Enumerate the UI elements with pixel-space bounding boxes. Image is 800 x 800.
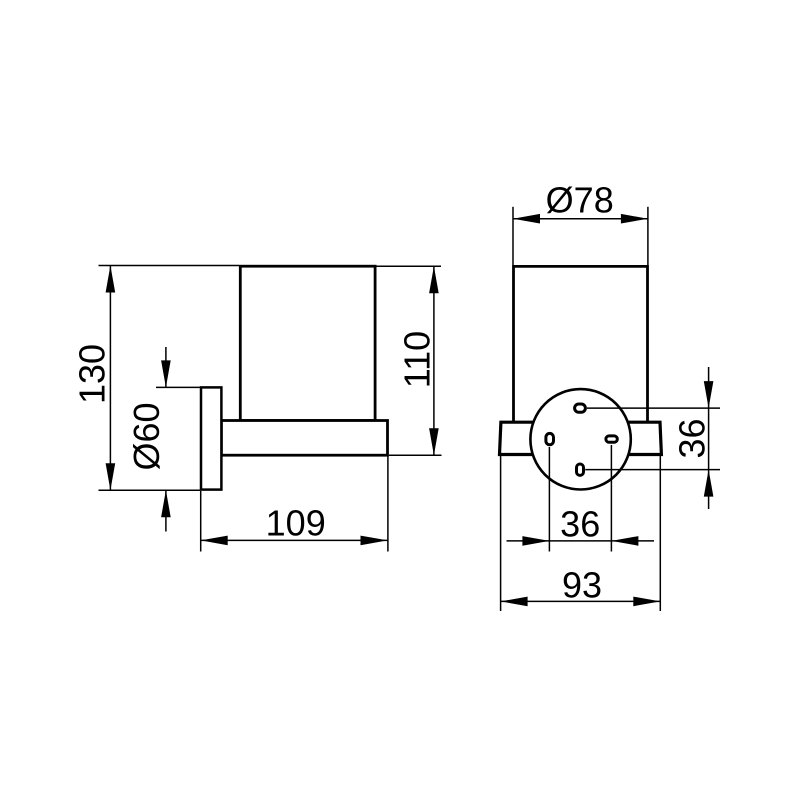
svg-text:93: 93 <box>562 565 602 606</box>
dimension 93 arrow right <box>633 597 660 607</box>
holder arm / ring (side view) <box>221 421 387 456</box>
dimension 36 right line <box>708 367 710 509</box>
screw slot top <box>575 404 586 412</box>
dimension 36 right arrow up <box>704 470 714 497</box>
dimension Ø60 upper tail <box>165 347 167 387</box>
dimension 109 arrow left <box>201 536 228 546</box>
dimension 36 bottom extension line left (from left slot) <box>548 447 550 552</box>
dimension Ø60 arrow up <box>161 490 171 517</box>
dimension Ø78 extension line left <box>512 207 514 265</box>
glass tumbler (front view) <box>514 266 648 422</box>
dimension 36 bottom arrow left-pointing <box>611 536 638 546</box>
dimension Ø60 extension line top <box>156 386 200 388</box>
holder ring (front view) <box>500 422 662 454</box>
dimension 36 bottom extension line right (from right slot) <box>610 445 612 552</box>
screw slot right <box>606 436 617 442</box>
svg-text:36: 36 <box>560 504 600 545</box>
dimension 130 arrow down <box>106 463 116 490</box>
dimension 93 line <box>501 600 661 602</box>
dimension 110 line <box>433 266 435 455</box>
dimension 110 arrow up <box>429 266 439 293</box>
wall plate rosette (front view) <box>530 389 630 489</box>
dimension 109 line <box>201 539 388 541</box>
dimension 130 line <box>109 266 111 491</box>
svg-text:110: 110 <box>397 331 438 388</box>
dimension Ø78 line <box>513 218 648 220</box>
glass tumbler (side view) <box>240 266 375 420</box>
dimension Ø78 arrow left <box>513 214 540 224</box>
svg-text:109: 109 <box>266 502 326 543</box>
dimension Ø60 arrow down <box>161 360 171 387</box>
svg-text:Ø78: Ø78 <box>546 180 614 221</box>
dimension Ø60 lower tail <box>165 490 167 531</box>
dimension Ø78 extension line right <box>647 207 649 265</box>
dimension 109 extension line right <box>387 457 389 552</box>
dimension 36 right arrow down <box>704 381 714 408</box>
dimension 36 bottom arrow right-pointing <box>522 536 549 546</box>
dimension Ø78 arrow right <box>621 214 648 224</box>
svg-text:130: 130 <box>72 344 113 404</box>
dimension 93 extension line right <box>659 456 661 611</box>
wall plate rosette (side view) <box>201 387 221 489</box>
dimension 36 bottom line <box>507 540 655 542</box>
dimension 109 extension line left <box>200 491 202 552</box>
dimension 36 right leader top (from top slot) <box>587 407 720 409</box>
dimension 110 arrow down <box>429 428 439 455</box>
dimension 130 arrow up <box>106 266 116 293</box>
dimension 93 arrow left <box>501 597 528 607</box>
dimension 109 arrow right <box>361 536 388 546</box>
dimension 130/Ø60 extension line bottom <box>99 489 201 491</box>
dimension 36 right leader bottom (from bottom slot) <box>585 469 720 471</box>
dimension 93 extension line left <box>500 456 502 611</box>
svg-text:36: 36 <box>672 418 713 458</box>
screw slot bottom <box>577 464 584 475</box>
dimension 110 extension line bottom <box>389 454 442 456</box>
dimension 130 extension line top <box>99 265 240 267</box>
screw slot left <box>546 433 554 444</box>
dimension 110 extension line top <box>377 265 442 267</box>
svg-text:Ø60: Ø60 <box>126 402 167 470</box>
